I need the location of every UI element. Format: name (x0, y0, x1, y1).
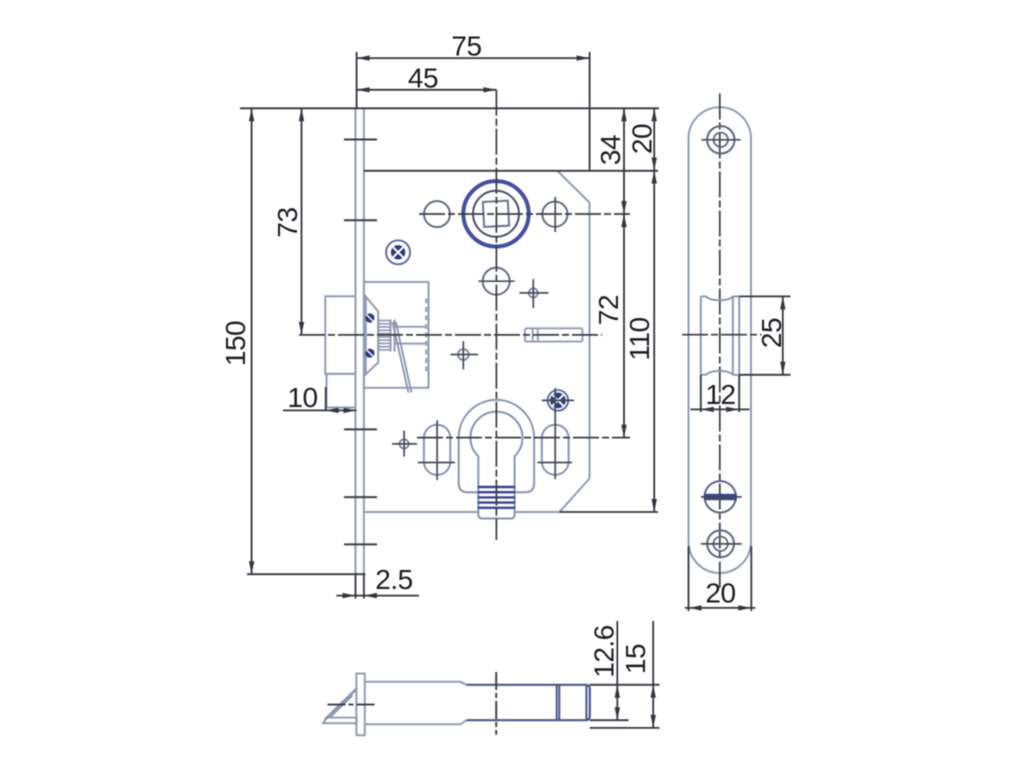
lever double diagonal (393, 322, 412, 393)
extension line 75/45 left vertical (356, 52, 358, 108)
extension line 25 top (739, 295, 790, 297)
svg-text:73: 73 (272, 207, 303, 237)
spindle horizontal centerline (419, 213, 630, 215)
svg-text:20: 20 (627, 124, 658, 154)
arrows 2.5 (343, 593, 356, 598)
hole left of hub (424, 201, 450, 227)
dim line 2.5 (336, 595, 419, 597)
lock case right edge (589, 203, 591, 479)
top screw hole crosshair (702, 139, 741, 141)
spring anchor strip (425, 298, 427, 373)
dim line 150 (251, 108, 253, 574)
arrows 73 (299, 108, 304, 121)
arrows 75 (357, 55, 370, 60)
dark screw crosshair horizontal (542, 399, 574, 401)
right hole vertical tick (554, 197, 556, 232)
arrows 12 (701, 407, 714, 412)
svg-text:12.6: 12.6 (589, 625, 620, 678)
extension line 150 bottom (247, 573, 365, 575)
dim line 73 (301, 108, 303, 335)
dark screw above right oval (548, 390, 569, 411)
extension line faceplate top (240, 107, 659, 109)
dark case outline bottom view (467, 685, 590, 720)
latch tip bar (323, 718, 357, 724)
latch recess inner vertical 2 (738, 296, 740, 374)
spindle hub inner circle (473, 191, 519, 237)
latch recess inner vertical 1 (732, 296, 734, 374)
arrows 12.6 (615, 685, 620, 698)
svg-text:15: 15 (620, 644, 651, 674)
left housing top edge (365, 682, 467, 685)
dim line 12.6 (616, 621, 618, 720)
ARROWHEADS (249, 55, 786, 728)
extension line bottom view 15 bottom (590, 727, 660, 729)
MAIN FRONT VIEW : drawing body (light blue-grey) (325, 108, 589, 574)
link bar bottom line (395, 343, 428, 345)
bottom view vertical centerline (495, 672, 497, 735)
dark case inner verticals (557, 685, 587, 720)
bottom view latch centerline (328, 704, 375, 706)
faceplate edge-on strip (356, 674, 364, 736)
spring follower plate right (394, 320, 396, 352)
screw dot lower in follower (365, 349, 374, 358)
slot screw hole crosshair (701, 496, 742, 498)
extension line 75 right vertical (589, 52, 591, 171)
arrows 10 (326, 408, 339, 413)
faceplate tick marks (344, 140, 377, 545)
slot screw hole slot bar (705, 494, 737, 500)
right oval slot (542, 425, 569, 475)
dim line 45 (357, 89, 497, 91)
latch recess top edge wavy (701, 296, 739, 300)
dim line 25 (782, 296, 784, 374)
arrows 34 (621, 108, 626, 121)
dim line 15 (652, 621, 654, 728)
cylinder fixing stack lines (478, 487, 516, 508)
left oval horizontal mark (418, 462, 455, 464)
screw with cross below-left of hub : outer circle (386, 240, 410, 264)
slot screw hole circle (705, 481, 736, 512)
latch bevel inner diagonal (331, 696, 353, 718)
arrows 20 faceplate (689, 605, 702, 610)
extension line 12 left (700, 375, 702, 412)
dim line 20 right top (653, 108, 655, 170)
dim line 20 faceplate (685, 607, 756, 609)
spring coil (378, 321, 390, 350)
left oval vertical line (436, 420, 438, 480)
left housing bottom edge (365, 720, 467, 724)
svg-text:25: 25 (756, 318, 787, 348)
svg-text:12: 12 (705, 379, 735, 410)
right oval horizontal mark (538, 462, 573, 464)
dim line 110 (653, 171, 655, 513)
latch horizontal centerline (299, 334, 602, 336)
spindle square follower (483, 201, 509, 227)
lock case bottom edge left segment (364, 511, 478, 513)
svg-text:10: 10 (287, 382, 317, 413)
faceplate strip left line (355, 108, 357, 574)
cylinder horizontal centerline (417, 437, 630, 439)
faceplate strip right line (363, 108, 365, 574)
spindle hub outer dark ring (463, 181, 528, 246)
euro cylinder inner profile (470, 412, 522, 519)
CENTERLINES (299, 90, 630, 540)
svg-text:72: 72 (593, 295, 624, 325)
vertical centerline through hub and cylinder (495, 90, 497, 540)
extension line case bottom right (560, 511, 659, 513)
arrows 20 right (652, 108, 657, 121)
dim line 34 (623, 108, 625, 214)
DIMENSIONS (dark) (240, 52, 791, 728)
extension line 20fp left (688, 546, 690, 611)
svg-text:34: 34 (595, 135, 626, 165)
svg-text:110: 110 (624, 317, 655, 360)
faceplate centerline (719, 94, 721, 589)
hole below hub (483, 268, 510, 295)
right oval vertical line (554, 388, 556, 479)
top screw hole inner (714, 133, 728, 147)
svg-text:150: 150 (220, 321, 251, 366)
lock case bottom-right chamfer (560, 479, 590, 513)
spring anchor strip right (428, 298, 430, 373)
dim line 12 (691, 408, 750, 410)
small crosshair hole left of left oval (392, 431, 417, 457)
small crosshair hole mid case (451, 341, 478, 369)
faceplate latch centerline (682, 334, 762, 336)
extension line 20fp right (750, 546, 752, 611)
link bar top line (395, 326, 428, 328)
spring housing box (364, 282, 429, 388)
euro cylinder outer boss (459, 400, 534, 492)
screw dot upper in follower (365, 313, 374, 322)
extension line 10 left (325, 387, 327, 411)
bottom screw hole inner (713, 537, 727, 551)
svg-text:20: 20 (705, 578, 735, 609)
arrows 72 (621, 214, 626, 227)
hole right of hub (542, 202, 567, 227)
pin part on latch centerline (525, 328, 582, 341)
latch bolt head (325, 296, 355, 374)
lock case bottom edge right segment (515, 511, 560, 513)
latch bevel diagonal (325, 688, 357, 719)
hub below circle short centerline (478, 280, 514, 282)
top screw hole outer (707, 126, 734, 153)
extension line bottom view top (590, 684, 660, 686)
svg-text:45: 45 (408, 63, 438, 94)
latch bolt tail (327, 374, 356, 408)
dim line 75 (357, 57, 590, 59)
extension line 25 bottom (739, 374, 790, 376)
faceplate plate outline (689, 107, 752, 573)
extension line 2.5 right (363, 574, 365, 598)
arrows 150 (249, 108, 254, 121)
bottom screw hole crosshair (701, 543, 742, 545)
latch recess left edge (700, 296, 702, 374)
arrows 110 (652, 171, 657, 184)
dim line 72 (623, 214, 625, 438)
arrows 45 (357, 87, 370, 92)
latch recess bottom edge wavy (701, 371, 739, 375)
extension line 12 right (738, 375, 740, 412)
latch follower hexagon plate (366, 297, 378, 375)
lock case top-right chamfer (557, 171, 590, 203)
arrows 25 (780, 296, 785, 309)
extension line case top right (364, 170, 658, 172)
left oval slot (424, 425, 450, 475)
arrows 15 (651, 685, 656, 698)
bottom screw hole outer (707, 530, 734, 557)
spring follower plate (390, 320, 392, 352)
dim line 10 (283, 409, 357, 411)
extension line 2.5 left (355, 574, 357, 598)
small crosshair hole right of hub circle (519, 279, 548, 308)
extension line bottom view 12.6 bottom (590, 719, 629, 721)
svg-text:75: 75 (451, 31, 481, 62)
svg-text:2.5: 2.5 (375, 564, 412, 595)
